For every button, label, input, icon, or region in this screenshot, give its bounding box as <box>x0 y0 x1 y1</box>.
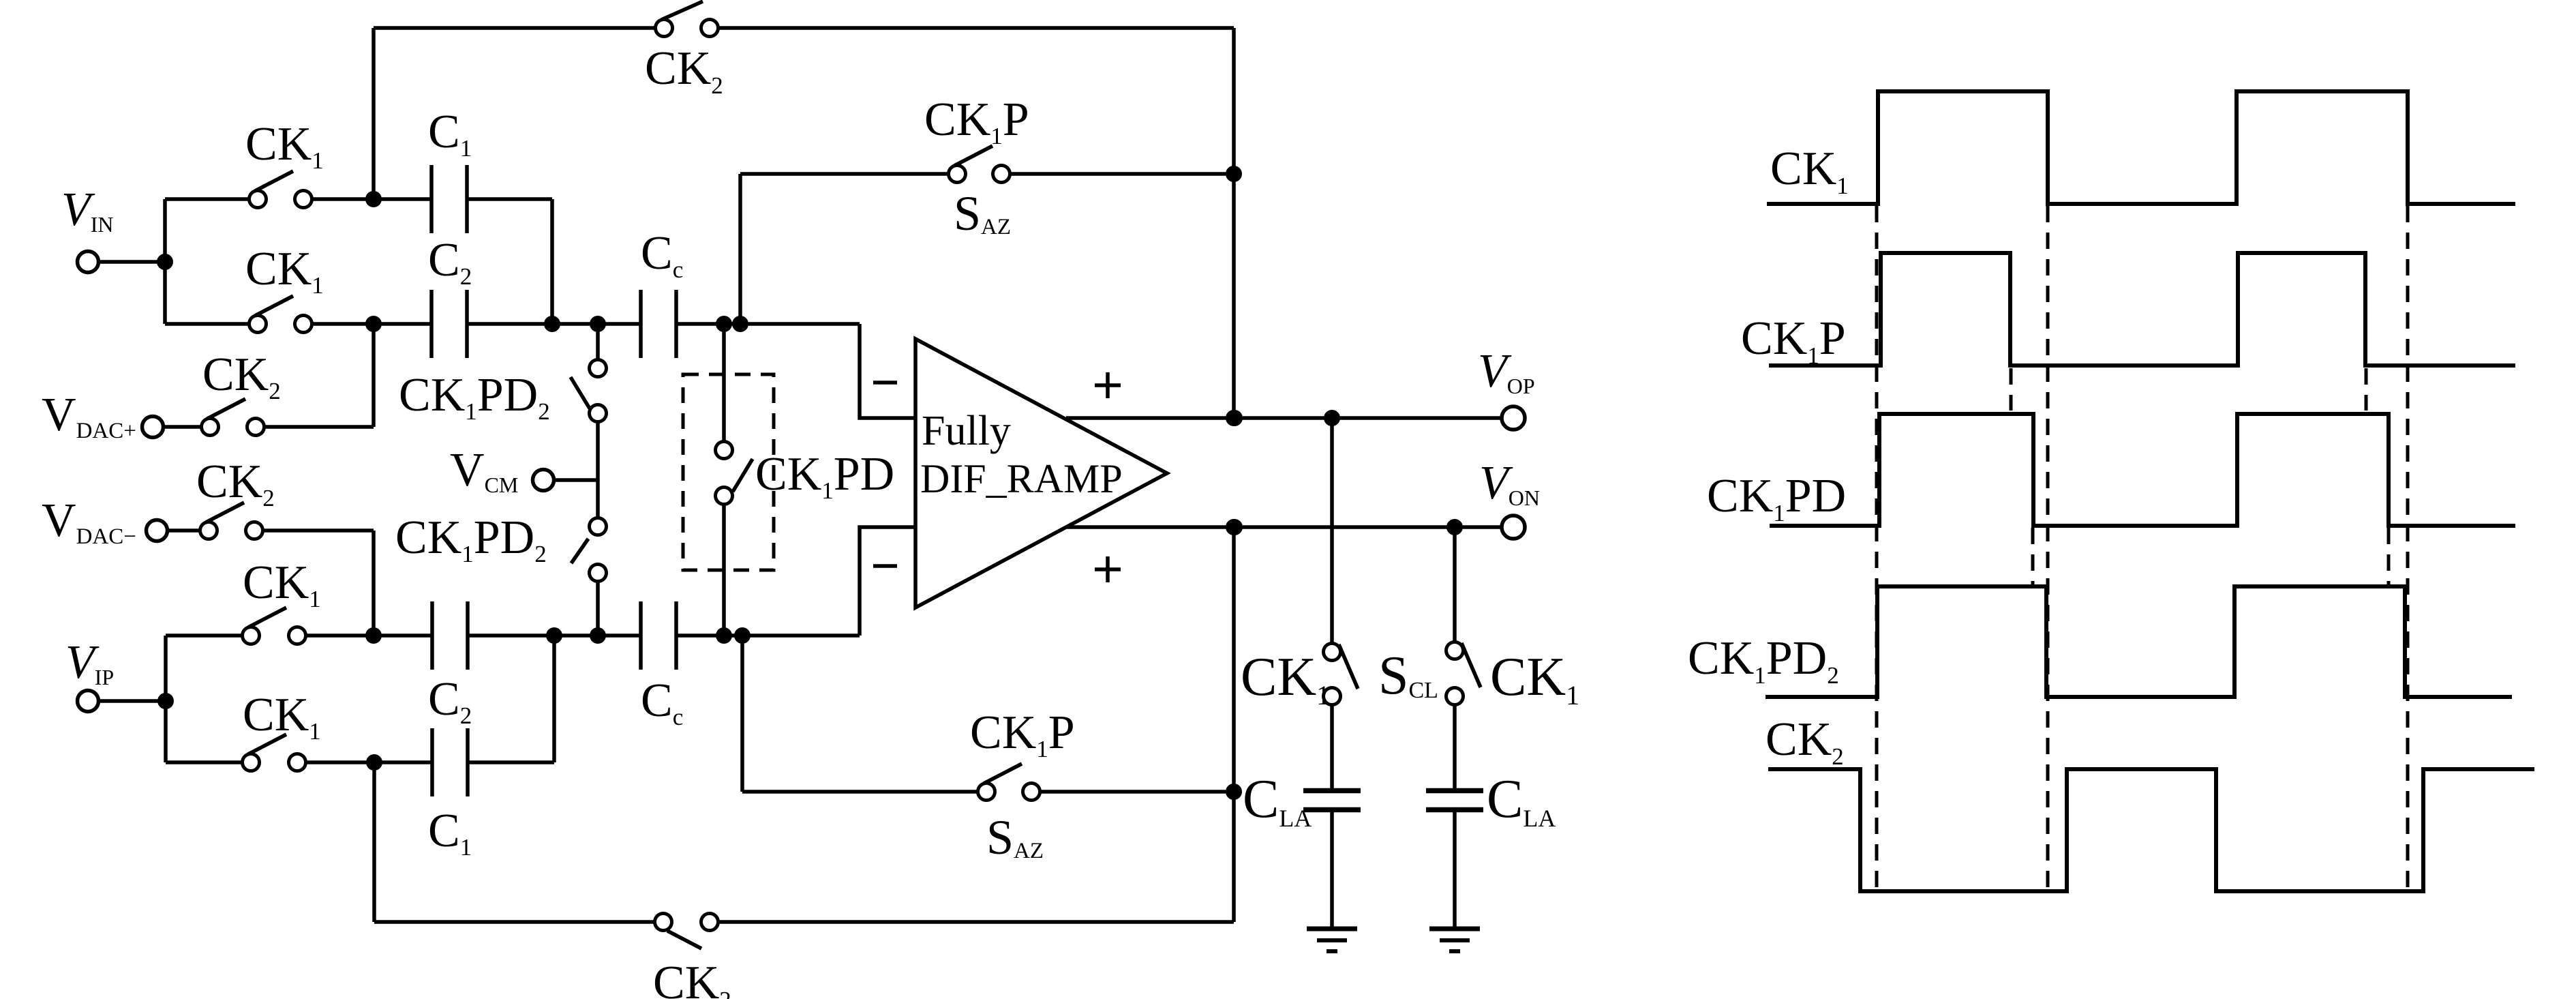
svg-text:DIF_RAMP: DIF_RAMP <box>920 456 1123 501</box>
svg-text:CK1P: CK1P <box>924 93 1029 149</box>
svg-text:CK1P: CK1P <box>970 706 1075 762</box>
svg-text:Fully: Fully <box>922 408 1011 454</box>
svg-text:CK1P: CK1P <box>1741 312 1846 369</box>
